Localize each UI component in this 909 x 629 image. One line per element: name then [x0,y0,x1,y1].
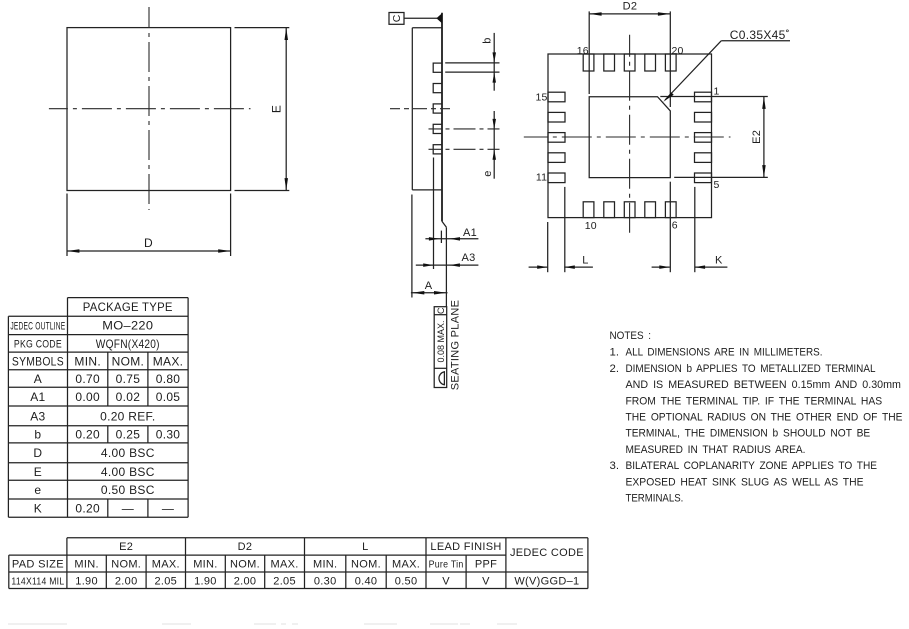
svg-text:A1: A1 [463,227,477,239]
pin number labels [535,45,719,232]
svg-text:NOM.: NOM. [112,354,145,368]
svg-text:1.90: 1.90 [194,575,217,587]
svg-text:0.08 MAX.: 0.08 MAX. [436,320,446,362]
svg-text:0.30: 0.30 [156,428,181,442]
svg-text:1.90: 1.90 [75,575,98,587]
dimension E [235,28,290,191]
svg-text:MAX.: MAX. [153,354,184,368]
svg-text:NOM.: NOM. [111,559,141,571]
svg-text:3.: 3. [610,460,620,472]
svg-text:0.20: 0.20 [75,502,100,516]
left column terminals 15-11 [548,92,565,182]
svg-text:JEDEC CODE: JEDEC CODE [510,547,584,559]
svg-text:L: L [582,254,588,266]
bottom table grid [9,538,588,589]
bottom row terminals 10-6 [583,202,676,218]
svg-text:2.00: 2.00 [115,575,138,587]
svg-text:—: — [122,502,134,516]
bottom view vertical centerline [629,35,631,237]
svg-text:TERMINALS.: TERMINALS. [626,493,684,505]
svg-text:ALL DIMENSIONS ARE IN MILLIMET: ALL DIMENSIONS ARE IN MILLIMETERS. [626,347,823,359]
svg-text:NOTES :: NOTES : [610,330,652,342]
svg-text:MEASURED IN THAT RADIUS AREA.: MEASURED IN THAT RADIUS AREA. [626,444,806,456]
dimension E2 [660,97,768,178]
svg-text:0.20 REF.: 0.20 REF. [100,409,155,423]
svg-text:2.: 2. [610,363,620,375]
bottom view package outline [548,54,712,218]
datum C box [389,13,404,25]
svg-text:6: 6 [672,220,678,232]
exposed pad with chamfer [589,97,670,178]
bottom table text [11,541,583,587]
svg-text:L: L [362,541,368,553]
svg-text:b: b [482,37,494,43]
svg-text:D2: D2 [623,1,638,13]
svg-text:A: A [425,280,433,292]
top view package outline [67,28,231,191]
dimension K [652,182,728,273]
svg-text:PKG CODE: PKG CODE [14,339,62,351]
dimension D2 [589,1,670,107]
svg-text:b: b [34,428,41,442]
svg-text:1: 1 [713,85,719,97]
svg-text:C: C [436,307,446,314]
dimension b [445,33,499,91]
svg-text:BILATERAL COPLANARITY ZONE APP: BILATERAL COPLANARITY ZONE APPLIES TO TH… [626,460,878,472]
svg-text:D: D [33,446,42,460]
svg-text:C: C [391,14,403,22]
left table grid [8,298,188,518]
dimension A1 [425,227,478,243]
svg-text:PAD SIZE: PAD SIZE [12,559,64,571]
svg-text:0.40: 0.40 [355,575,378,587]
svg-text:e: e [482,170,494,176]
svg-text:MIN.: MIN. [313,559,337,571]
svg-text:11: 11 [536,171,547,183]
svg-text:W(V)GGD–1: W(V)GGD–1 [514,575,579,587]
svg-text:4.00 BSC: 4.00 BSC [101,446,155,460]
terminal lead bottom lines [434,158,447,307]
dimension e [482,111,496,179]
svg-text:114X114 MIL: 114X114 MIL [11,576,64,587]
svg-text:0.00: 0.00 [75,390,100,404]
svg-text:A3: A3 [461,252,475,264]
svg-text:SEATING PLANE: SEATING PLANE [450,300,462,391]
terminal pitch centerlines [429,129,500,149]
svg-text:MO–220: MO–220 [102,319,153,333]
svg-text:A: A [34,372,42,386]
svg-text:SYMBOLS: SYMBOLS [12,354,64,368]
svg-text:16: 16 [577,45,589,57]
left table text [10,300,183,515]
svg-text:E: E [270,105,284,113]
top view vertical centerline [148,7,150,210]
svg-text:e: e [34,483,41,497]
svg-text:D2: D2 [238,541,253,553]
svg-text:NOM.: NOM. [351,559,381,571]
svg-text:C0.35X45˚: C0.35X45˚ [730,28,790,42]
svg-text:5: 5 [713,179,719,191]
svg-text:0.20: 0.20 [75,428,100,442]
svg-text:0.70: 0.70 [75,372,100,386]
svg-text:0.05: 0.05 [156,390,181,404]
svg-text:FROM THE TERMINAL TIP. IF THE: FROM THE TERMINAL TIP. IF THE TERMINAL H… [626,395,883,407]
chamfer callout C0.35X45 [663,28,790,102]
svg-text:4.00 BSC: 4.00 BSC [101,465,155,479]
svg-text:MIN.: MIN. [74,354,101,368]
datum leader and triangle [404,13,442,23]
svg-text:0.75: 0.75 [116,372,141,386]
dimension A [411,195,448,298]
svg-text:LEAD FINISH: LEAD FINISH [430,541,501,553]
seating plane feature control frame [434,307,447,388]
svg-text:PPF: PPF [475,559,497,571]
side view centerline [390,108,451,110]
seating plane label [450,300,462,391]
top row terminals 16-20 [583,54,676,71]
svg-text:THE OPTIONAL RADIUS ON THE OTH: THE OPTIONAL RADIUS ON THE OTHER END OF … [626,412,903,424]
svg-text:10: 10 [585,220,597,232]
svg-text:15: 15 [535,92,547,104]
svg-text:JEDEC OUTLINE: JEDEC OUTLINE [10,321,65,333]
svg-text:E: E [34,465,42,479]
svg-text:MIN.: MIN. [74,559,98,571]
svg-text:MAX.: MAX. [392,559,420,571]
svg-text:WQFN(X420): WQFN(X420) [96,337,160,351]
bottom view horizontal centerline [524,136,731,138]
top view horizontal centerline [49,108,251,110]
svg-text:D: D [144,236,153,250]
svg-text:2.05: 2.05 [154,575,177,587]
svg-text:0.25: 0.25 [116,428,141,442]
side view body outline [412,13,442,222]
svg-text:V: V [442,575,450,587]
svg-text:0.50: 0.50 [395,575,418,587]
svg-text:E2: E2 [751,130,763,144]
notes text block [610,330,903,505]
svg-text:—: — [162,502,174,516]
svg-text:0.30: 0.30 [314,575,337,587]
svg-text:2.00: 2.00 [234,575,257,587]
svg-text:1.: 1. [610,347,620,359]
dimension L [529,187,593,272]
svg-text:0.80: 0.80 [156,372,181,386]
faint cropped artifacts at bottom edge [8,623,517,625]
svg-text:AND IS MEASURED BETWEEN 0.15mm: AND IS MEASURED BETWEEN 0.15mm AND 0.30m… [626,379,901,391]
svg-text:V: V [482,575,490,587]
svg-text:MIN.: MIN. [193,559,217,571]
right column terminals 1-5 [695,92,712,182]
svg-text:E2: E2 [119,541,133,553]
svg-text:PACKAGE TYPE: PACKAGE TYPE [83,300,173,314]
side view terminals [433,63,442,154]
svg-text:20: 20 [671,45,683,57]
svg-text:0.02: 0.02 [116,390,141,404]
svg-text:A3: A3 [30,409,45,423]
dimension A3 [416,252,479,267]
svg-text:MAX.: MAX. [152,559,180,571]
dimension D [67,194,231,257]
svg-text:DIMENSION b APPLIES TO METALLI: DIMENSION b APPLIES TO METALLIZED TERMIN… [626,363,876,375]
svg-text:MAX.: MAX. [271,559,299,571]
svg-text:TERMINAL, THE DIMENSION b SHOU: TERMINAL, THE DIMENSION b SHOULD NOT BE [626,428,871,440]
svg-text:2.05: 2.05 [273,575,296,587]
svg-text:Pure Tin: Pure Tin [429,560,464,571]
svg-text:NOM.: NOM. [230,559,260,571]
svg-text:A1: A1 [30,390,45,404]
svg-text:K: K [34,502,42,516]
svg-text:0.50 BSC: 0.50 BSC [101,483,155,497]
svg-text:K: K [715,254,723,266]
svg-text:EXPOSED HEAT SINK SLUG AS WELL: EXPOSED HEAT SINK SLUG AS WELL AS THE [626,476,864,488]
